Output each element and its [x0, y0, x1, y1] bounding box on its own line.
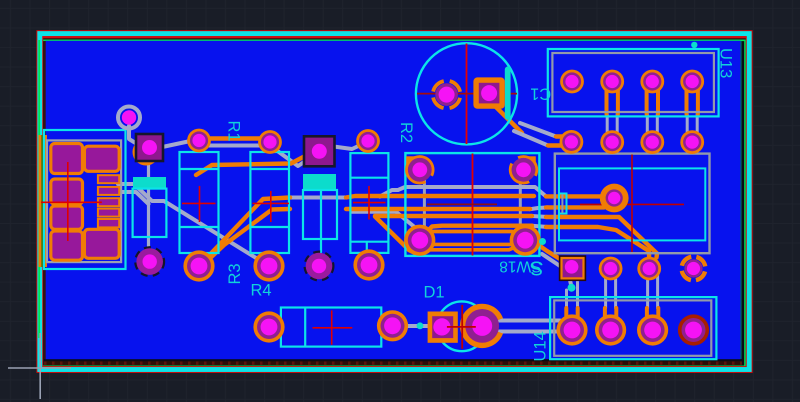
- IC U13 outline cyan: [548, 49, 719, 116]
- wire grey lane g2 to SW18 pad3: [352, 212, 420, 240]
- pad R4-1 (269,327): [253, 311, 284, 342]
- wire grey mid segment lane A: [290, 196, 346, 200]
- pad U13-1 (572,81.5): [560, 70, 584, 94]
- svg-text:S: S: [530, 257, 544, 280]
- pad C1-minus thermal (446.6,94.6): [427, 75, 466, 114]
- pad D1-cathode (482.2,325.9): [463, 307, 500, 346]
- pad U13-5 (572,142.1): [560, 130, 584, 154]
- pad U14-2 (610.6,330): [595, 314, 626, 345]
- keepout red hatch ticks: [44, 362, 742, 365]
- relay K1 notch grey line: [561, 194, 563, 213]
- via teal SW18 right: [539, 238, 546, 245]
- pad C1-plus square (489,93): [473, 77, 504, 108]
- wire orange branch lane C to pad link: [375, 217, 421, 254]
- pad U14-t3 (649.2,268.5): [637, 257, 661, 281]
- diode D1 red cross: [447, 305, 476, 349]
- resistor R4 body horizontal: [274, 308, 387, 347]
- wire grey U14 vertical pairs: [567, 272, 658, 316]
- pad U13-8 (692.2,142.1): [680, 130, 704, 154]
- pad square S2 (319.5,151): [304, 136, 335, 166]
- bottom keepout maroon strip: [44, 361, 742, 365]
- pad U13-3 (652.3,81.5): [640, 70, 664, 94]
- wire orange SW18 pad-pad low1: [421, 242, 521, 245]
- pad U13-2 (612.2,81.5): [600, 70, 624, 94]
- board base dark clearance area: [37, 32, 749, 367]
- capacitor C1 outline circle: [416, 43, 517, 144]
- wire grey diag C1 to pad a: [520, 123, 571, 137]
- green left overlay line: [38, 40, 40, 338]
- pad SW18-1 (419.8,169.8): [401, 151, 438, 188]
- svg-text:D1: D1: [424, 284, 445, 302]
- svg-text:U14: U14: [532, 331, 550, 361]
- connector J1 silkscreen outline: [44, 130, 126, 269]
- wire orange lane D SW18 to U14 pad3: [424, 226, 649, 266]
- pad R3-2 (269,266): [253, 250, 284, 281]
- connector J1 pad A4: [51, 231, 83, 260]
- resistor R1 body: [180, 144, 219, 258]
- via V1 top-left: [118, 107, 140, 129]
- board outline green layer: [39, 40, 745, 366]
- pad SW18-2 (523.5,169.8): [505, 151, 542, 188]
- via teal U13: [691, 42, 697, 48]
- wire grey top row R1: [199, 144, 270, 148]
- svg-text:U13: U13: [717, 48, 735, 78]
- wire orange SW18 pad-pad low2: [421, 246, 519, 250]
- wire grey fan f1: [118, 184, 269, 266]
- wire orange stubs into pad 570,141: [548, 137, 572, 146]
- pad R3-1 (270,142): [258, 130, 282, 154]
- pad R1-1 (199,140.5): [187, 129, 211, 153]
- connector J1 pad B1: [84, 146, 119, 171]
- connector J1 left edge orange pad strip: [39, 135, 48, 267]
- origin crosshair marker: [8, 333, 71, 399]
- connector J1 pad B2: [84, 229, 119, 258]
- switch SW18 red centerline: [472, 154, 474, 256]
- switch SW18 outline: [405, 153, 539, 256]
- wire orange U14 teardrop stems: [566, 308, 658, 328]
- copper pour (blue): [46, 41, 741, 359]
- wire orange C1 square diag: [494, 105, 522, 133]
- pad relay (614.2,198): [600, 184, 629, 213]
- inner red line top: [40, 37, 747, 39]
- pad U14-t4 thermal (693.5,268.5): [677, 252, 711, 286]
- wire grey diag to via: [542, 254, 572, 287]
- capacitor C1 dark red h-line: [417, 93, 517, 95]
- IC U13 outline grey: [552, 53, 714, 112]
- pad U14-3 (652.6,330): [637, 314, 668, 345]
- wire grey vert cap1 column: [147, 160, 150, 256]
- svg-text:R1: R1: [225, 121, 243, 142]
- relay K1 red cross: [580, 155, 684, 253]
- connector J1 red cross: [41, 162, 102, 241]
- svg-text:C1: C1: [530, 85, 551, 103]
- wire orange lane into square2: [196, 155, 307, 175]
- pour edge dark teal line right: [740, 41, 742, 359]
- pad SW18-3 (419.8,240.2): [404, 225, 435, 256]
- relay K1 inner cyan outline: [559, 168, 705, 240]
- connector J1 shield outline grey: [47, 140, 121, 262]
- wire lavender patch lane D: [532, 226, 548, 227]
- connector J1 green board edge over strip: [41, 135, 43, 267]
- wire grey U13 vertical pairs: [607, 114, 697, 134]
- board outline cyan: [40, 34, 749, 370]
- capacitor C? small body left (cap1): [133, 177, 167, 237]
- pad U13-7 (652.3,142.1): [640, 130, 664, 154]
- wire grey diag C1 to pad b: [514, 131, 571, 146]
- relay K1 notch: [559, 194, 567, 214]
- pad R2-2 (369,265): [353, 249, 384, 280]
- wire grey square2 to pad R2: [330, 141, 369, 149]
- switch SW18 dark red h-line: [427, 203, 497, 205]
- pad U14-1 (572,330): [556, 314, 587, 345]
- pad dark D-a (149.7,261.6): [136, 247, 164, 275]
- connector J1 pad A3: [51, 206, 83, 229]
- IC U14 outline cyan: [550, 297, 716, 359]
- connector J1 pad A2: [51, 179, 83, 204]
- wire grey square1 to pad: [160, 142, 199, 148]
- via teal D1 left: [417, 322, 424, 329]
- pad R4-2 (392.5,325.8): [377, 310, 408, 341]
- wire grey fan f2: [118, 192, 149, 204]
- resistor R2 body: [350, 145, 388, 253]
- capacitor C1 polarity bar: [505, 67, 511, 120]
- wire orange SW18 pad-pad mid: [430, 230, 512, 234]
- wire grey D1 right pair to U14 pad1: [490, 321, 571, 333]
- wire orange top row R1: [199, 136, 270, 140]
- pad U14-t2 (610.6,268.5): [599, 257, 623, 281]
- wire lavender patch lane C: [532, 216, 548, 217]
- TRACES: [118, 84, 698, 332]
- wire grey verticals SW18: [424, 172, 520, 238]
- capacitor C? small body mid (cap2): [303, 174, 337, 239]
- svg-text:R4: R4: [251, 281, 272, 299]
- IC U14 outline grey: [554, 300, 711, 355]
- pad square U14-in (572,268): [560, 256, 586, 280]
- wire grey D1 left link: [392, 324, 436, 328]
- wire orange lane A to relay pad: [199, 196, 608, 266]
- wire orange U13 teardrop stems: [607, 84, 698, 114]
- pad U14-4 red ring (693.5,330): [678, 314, 709, 345]
- via teal U14: [568, 284, 576, 292]
- pad dark D-b (319,266): [305, 252, 333, 280]
- pad U13-4 (692.2,81.5): [680, 70, 704, 94]
- wire orange lane C dark pad to U14 pad3: [375, 216, 657, 258]
- diode D1 circle outline: [437, 301, 487, 351]
- capacitor C1 red cross: [466, 44, 468, 145]
- pad R2-1 (368,141): [356, 129, 380, 153]
- wire grey pad to square2: [270, 146, 310, 167]
- wire orange lane B pad R3-2 to relay pad: [206, 207, 604, 262]
- board outline red edge: [40, 34, 749, 370]
- pad SW18-4 (525.2,240.2): [510, 225, 541, 256]
- wire grey lane g1: [380, 187, 546, 197]
- wire grey via to square1: [129, 126, 142, 147]
- pad square S1 (150,147.5): [133, 134, 164, 166]
- pad R1-2 (199,266): [183, 250, 214, 281]
- connector J1 pad A1: [51, 144, 83, 174]
- relay K1 outer grey outline: [555, 154, 710, 254]
- svg-text:R2: R2: [397, 122, 415, 143]
- left inner maroon line: [44, 41, 46, 359]
- silk line cap2 center: [320, 190, 322, 252]
- svg-text:R3: R3: [226, 263, 244, 284]
- pad D1-anode square: [428, 312, 458, 343]
- wire lavender patch lane B: [530, 207, 548, 209]
- pad U13-6 (612.2,142.1): [600, 130, 624, 154]
- resistor R3 body: [250, 144, 289, 258]
- connector J1 finger pins: [98, 175, 119, 227]
- wire orange SW18 pad4 to square pad: [527, 242, 571, 267]
